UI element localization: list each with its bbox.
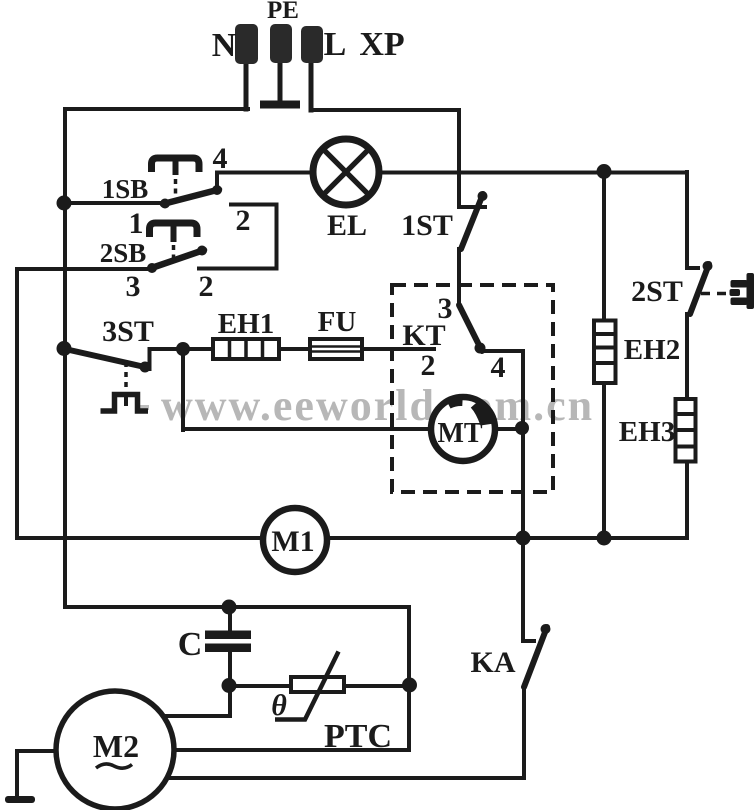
svg-text:N: N <box>212 27 237 64</box>
svg-text:C: C <box>178 626 203 663</box>
svg-text:www.eeworld.com.cn: www.eeworld.com.cn <box>161 381 594 430</box>
svg-text:4: 4 <box>491 351 506 384</box>
svg-text:EH3: EH3 <box>619 416 675 448</box>
svg-text:2: 2 <box>199 270 214 303</box>
svg-text:2ST: 2ST <box>631 275 683 308</box>
svg-text:EH1: EH1 <box>218 308 274 340</box>
svg-text:θ: θ <box>271 689 287 722</box>
svg-text:EH2: EH2 <box>624 334 680 366</box>
svg-text:2: 2 <box>421 349 436 382</box>
svg-text:3: 3 <box>126 270 141 303</box>
svg-text:2: 2 <box>236 204 251 237</box>
svg-text:1SB: 1SB <box>102 174 149 204</box>
svg-text:M1: M1 <box>271 525 314 558</box>
svg-text:EL: EL <box>327 209 367 242</box>
svg-text:L: L <box>324 26 347 63</box>
svg-text:KA: KA <box>471 646 516 679</box>
svg-text:M2: M2 <box>93 728 139 764</box>
svg-text:3ST: 3ST <box>102 315 154 348</box>
svg-text:FU: FU <box>318 306 357 338</box>
svg-text:2SB: 2SB <box>100 238 147 268</box>
svg-text:MT: MT <box>437 418 482 449</box>
svg-text:PTC: PTC <box>324 718 392 755</box>
svg-text:3: 3 <box>438 292 453 325</box>
svg-text:4: 4 <box>213 142 228 175</box>
svg-text:1ST: 1ST <box>401 209 453 242</box>
svg-text:PE: PE <box>267 0 299 24</box>
svg-text:1: 1 <box>129 207 144 240</box>
svg-text:XP: XP <box>359 26 404 63</box>
